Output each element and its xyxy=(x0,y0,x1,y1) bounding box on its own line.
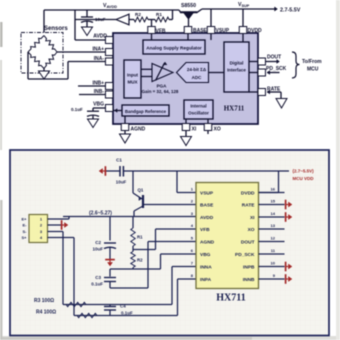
svg-text:XI: XI xyxy=(250,215,255,221)
svg-text:MUX: MUX xyxy=(128,80,138,85)
svg-text:2.7-5.5V: 2.7-5.5V xyxy=(280,8,301,14)
svg-text:15: 15 xyxy=(271,199,276,204)
svg-text:R2: R2 xyxy=(137,258,143,263)
svg-text:C4: C4 xyxy=(120,304,126,309)
svg-text:PGA: PGA xyxy=(157,84,168,89)
svg-text:XO: XO xyxy=(214,127,221,133)
svg-text:C1: C1 xyxy=(116,158,122,163)
svg-text:Digital: Digital xyxy=(230,61,244,66)
svg-text:R4 100Ω: R4 100Ω xyxy=(36,310,56,316)
svg-text:10: 10 xyxy=(271,261,276,266)
svg-text:AGND: AGND xyxy=(200,240,215,246)
svg-text:ADC: ADC xyxy=(192,75,202,80)
svg-text:Interface: Interface xyxy=(227,68,246,73)
svg-text:13: 13 xyxy=(271,223,276,228)
svg-text:DOUT: DOUT xyxy=(241,240,255,246)
svg-text:(2.7~5.5V): (2.7~5.5V) xyxy=(293,169,315,174)
svg-text:VFB: VFB xyxy=(200,227,210,233)
svg-text:RATE: RATE xyxy=(242,203,256,209)
svg-text:0.1uF: 0.1uF xyxy=(121,311,133,316)
svg-text:MCU VDD: MCU VDD xyxy=(293,176,315,181)
svg-text:INB+: INB+ xyxy=(92,80,104,86)
svg-text:16: 16 xyxy=(271,187,276,192)
svg-text:C2: C2 xyxy=(95,240,101,245)
svg-text:VBG: VBG xyxy=(93,102,104,108)
svg-text:S8550: S8550 xyxy=(181,3,196,9)
svg-text:E+: E+ xyxy=(21,217,27,222)
svg-text:PD_SCK: PD_SCK xyxy=(235,252,255,258)
svg-text:DOUT: DOUT xyxy=(267,55,281,61)
svg-text:R2: R2 xyxy=(135,12,141,17)
svg-text:S+: S+ xyxy=(21,235,27,240)
svg-text:VSUP: VSUP xyxy=(216,28,230,34)
svg-text:10uF: 10uF xyxy=(92,247,103,252)
svg-text:Analog Supply Regulator: Analog Supply Regulator xyxy=(146,46,202,51)
svg-text:INB-: INB- xyxy=(94,89,105,95)
svg-text:R1: R1 xyxy=(137,235,143,240)
svg-text:VFB: VFB xyxy=(156,29,166,35)
svg-text:DVDD: DVDD xyxy=(248,28,263,34)
svg-text:INA-: INA- xyxy=(94,56,105,62)
svg-text:14: 14 xyxy=(271,211,276,216)
svg-text:VSUP: VSUP xyxy=(200,191,214,197)
svg-text:(2.6~5.27): (2.6~5.27) xyxy=(89,211,112,217)
svg-text:S-: S- xyxy=(23,229,28,234)
svg-text:Q1: Q1 xyxy=(138,188,144,193)
svg-text:0.1uF: 0.1uF xyxy=(91,282,103,287)
svg-text:Bandgap Reference: Bandgap Reference xyxy=(125,109,167,114)
svg-text:AVDD: AVDD xyxy=(93,34,107,40)
svg-text:INNA: INNA xyxy=(200,265,212,271)
svg-text:INA+: INA+ xyxy=(92,46,104,52)
svg-text:Sensors: Sensors xyxy=(44,26,68,32)
svg-text:VBG: VBG xyxy=(200,252,211,258)
svg-text:R3 100Ω: R3 100Ω xyxy=(34,298,54,304)
svg-text:R1: R1 xyxy=(156,12,162,17)
svg-text:12: 12 xyxy=(271,236,276,241)
svg-text:BASE: BASE xyxy=(193,28,208,34)
svg-text:Input: Input xyxy=(127,73,138,78)
svg-text:XI: XI xyxy=(192,127,197,133)
svg-text:Internal: Internal xyxy=(190,104,206,109)
svg-text:INNB: INNB xyxy=(243,277,255,283)
svg-text:XO: XO xyxy=(248,227,255,233)
svg-text:24-bit ΣΔ: 24-bit ΣΔ xyxy=(187,67,207,72)
svg-text:HX711: HX711 xyxy=(216,293,245,304)
svg-text:C3: C3 xyxy=(95,275,101,280)
svg-text:DVDD: DVDD xyxy=(241,191,255,197)
svg-text:0.1uF: 0.1uF xyxy=(71,107,83,112)
svg-text:E-: E- xyxy=(23,223,28,228)
svg-text:INPB: INPB xyxy=(243,265,255,271)
svg-text:MCU: MCU xyxy=(307,67,319,73)
svg-text:10uF: 10uF xyxy=(116,180,127,185)
svg-text:Gain = 32, 64, 128: Gain = 32, 64, 128 xyxy=(142,89,179,94)
svg-text:AVDD: AVDD xyxy=(200,215,214,221)
svg-text:HX711: HX711 xyxy=(224,105,245,113)
svg-text:BASE: BASE xyxy=(200,203,214,209)
svg-text:Oscillator: Oscillator xyxy=(188,111,209,116)
svg-text:INPA: INPA xyxy=(200,277,212,283)
svg-text:AGND: AGND xyxy=(131,127,146,133)
svg-text:To/From: To/From xyxy=(302,59,322,65)
